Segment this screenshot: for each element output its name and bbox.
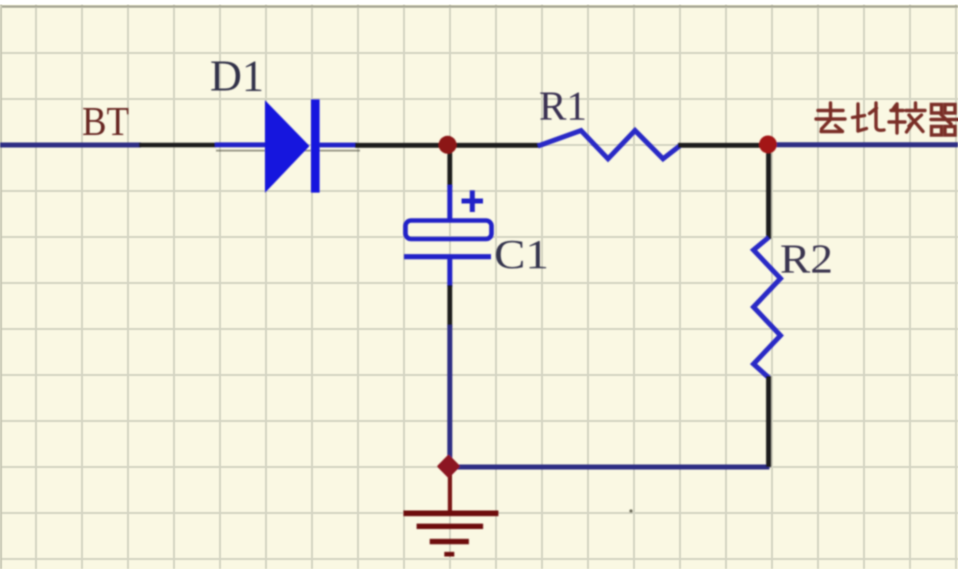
net label 较 (compare) xyxy=(889,103,925,133)
ground stem xyxy=(448,466,452,511)
diode D1 cathode bar xyxy=(311,99,320,192)
wire: shadow line under diode leads xyxy=(216,150,360,152)
wire: diode anode lead xyxy=(215,142,266,147)
ground bar 1 xyxy=(404,510,499,516)
net label 器 (device, clipped) xyxy=(931,105,958,136)
wire: down to ground node xyxy=(447,325,452,458)
wire: below C1, dark segment xyxy=(447,285,452,327)
wire: diode cathode lead xyxy=(319,143,357,148)
junction node B xyxy=(759,136,777,154)
wire: node A to R1 xyxy=(450,143,539,148)
wire: node B to right edge (to comparator) xyxy=(775,142,958,147)
resistor R2 zigzag xyxy=(754,238,781,378)
ground bar 4 xyxy=(444,552,454,557)
wire: R1 to node B xyxy=(678,143,761,148)
svg-text:D1: D1 xyxy=(210,52,264,101)
diode D1 triangle xyxy=(265,100,310,193)
wire: R2 to bottom net xyxy=(766,376,771,467)
svg-text:R1: R1 xyxy=(539,83,587,129)
wire: segment before diode anode xyxy=(139,143,216,148)
wire: BT net, left segment xyxy=(0,143,141,148)
junction ground node xyxy=(439,456,458,476)
svg-text:R2: R2 xyxy=(780,236,833,282)
wire: bottom net, ground node to R2 xyxy=(452,465,769,470)
svg-text:C1: C1 xyxy=(494,231,549,277)
net label 比 xyxy=(853,103,885,131)
junction node A xyxy=(439,136,457,154)
ground bar 3 xyxy=(430,539,469,544)
wire: C1 top lead xyxy=(447,185,452,221)
capacitor C1 bottom plate xyxy=(404,254,491,259)
wire: cathode to node A xyxy=(355,143,440,148)
wire: C1 bottom lead xyxy=(447,256,452,287)
capacitor C1 top plate xyxy=(406,221,492,240)
speck xyxy=(629,509,632,512)
wire: node B down to R2 xyxy=(766,150,771,239)
svg-text:BT: BT xyxy=(82,98,129,144)
capacitor C1 plus sign xyxy=(462,190,484,212)
net label 去 (to) xyxy=(816,103,845,132)
resistor R1 zigzag xyxy=(538,131,680,159)
ground bar 2 xyxy=(417,524,484,529)
wire: node A down to C1 xyxy=(447,147,452,187)
